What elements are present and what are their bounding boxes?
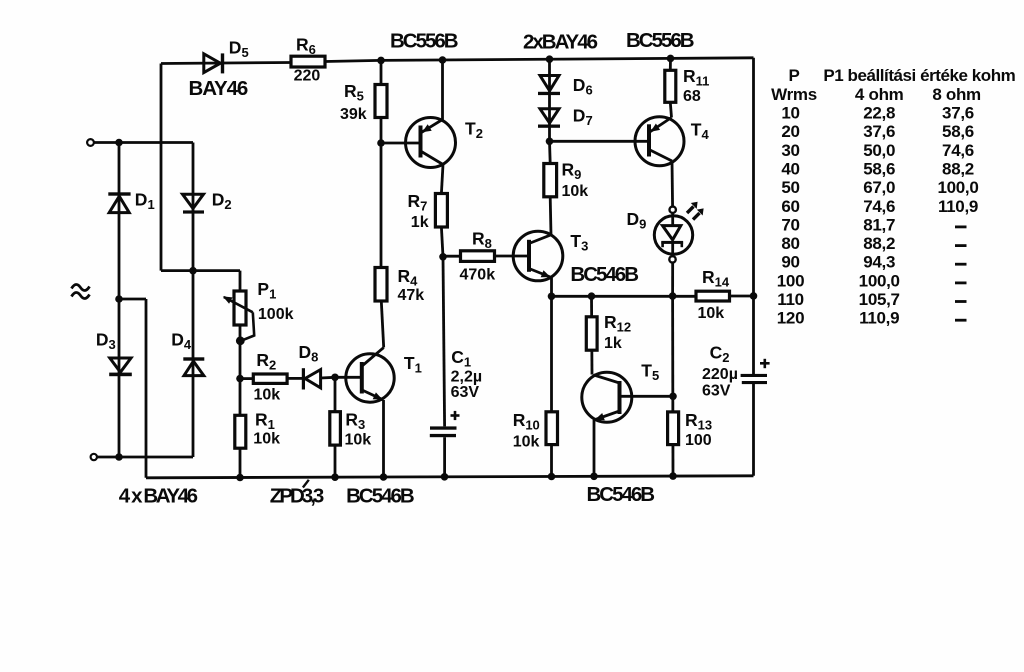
transistor T4 base bar: [647, 124, 651, 156]
svg-text:10k: 10k: [513, 434, 540, 451]
svg-text:2,2µ: 2,2µ: [451, 369, 482, 386]
wire D1/D3 column: [118, 143, 121, 458]
table dash row 110: [955, 300, 967, 303]
wire T2 base: [381, 142, 421, 145]
wire D2/D4 column: [192, 143, 195, 458]
plus C1: [451, 411, 460, 420]
wire D8 to T1 base junction: [321, 376, 336, 380]
junction top rail D6: [546, 55, 554, 63]
wire top rail: [381, 58, 754, 61]
resistor R3 10k: [330, 412, 341, 445]
wire left rail x=161: [160, 64, 163, 271]
wire R14 right: [730, 295, 754, 298]
diode D8 triangle: [305, 370, 321, 388]
transistor T1 emitter arrow: [373, 392, 383, 399]
svg-text:20: 20: [781, 122, 799, 141]
svg-text:BC546B: BC546B: [346, 485, 414, 508]
junction top rail T2 emitter: [439, 56, 447, 64]
junction D2 / D4 node: [189, 267, 197, 275]
transistor T2 circle: [406, 118, 456, 168]
svg-text:BC546B: BC546B: [570, 263, 638, 286]
LED D9 light arrow 2: [693, 213, 700, 220]
svg-text:2xBAY46: 2xBAY46: [523, 30, 598, 53]
svg-text:90: 90: [781, 253, 799, 272]
svg-text:120: 120: [777, 309, 804, 328]
svg-text:39k: 39k: [340, 106, 367, 123]
wire T4 collector to D9: [671, 161, 675, 216]
plus C2: [760, 359, 770, 368]
transistor T4 emitter: [649, 118, 672, 133]
svg-text:P1 beállítási értéke kohm: P1 beállítási értéke kohm: [823, 66, 1015, 85]
wire right rail lower: [752, 384, 755, 476]
junction T3 emitter / R10: [548, 293, 556, 301]
svg-text:37,6: 37,6: [942, 104, 974, 123]
svg-text:110,9: 110,9: [938, 197, 978, 216]
LED D9 bottom ring: [669, 256, 675, 262]
wire T4 base: [550, 140, 650, 143]
svg-text:100,0: 100,0: [937, 178, 978, 197]
ZPD3,3 pointer tick: [303, 480, 309, 488]
transistor T1 base bar: [360, 362, 364, 394]
diode D4 bar: [183, 357, 204, 360]
junction top rail R6 / R5: [377, 57, 385, 65]
svg-text:1k: 1k: [411, 214, 429, 231]
wire C1 column lower: [443, 437, 446, 477]
terminal top: [87, 139, 94, 146]
transistor T2 emitter arrow: [422, 124, 432, 132]
svg-text:58,6: 58,6: [863, 160, 895, 179]
junction P1 / R2 / R1: [236, 375, 244, 383]
resistor R2 10k: [253, 374, 287, 383]
potentiometer P1 wiper arrowhead: [223, 296, 233, 303]
svg-text:Wrms: Wrms: [771, 85, 817, 104]
svg-text:10k: 10k: [698, 305, 725, 322]
wire T1 base: [335, 376, 362, 379]
transistor T2 emitter: [421, 120, 443, 134]
diode D5 triangle: [204, 54, 221, 73]
svg-text:100,0: 100,0: [859, 271, 900, 290]
transistor T5 emitter: [594, 411, 620, 420]
diode D7 triangle: [540, 109, 559, 123]
junction D8 / R3 / T1 base: [331, 374, 339, 382]
AC source symbol: [72, 284, 90, 298]
svg-text:88,2: 88,2: [942, 160, 974, 179]
svg-text:47k: 47k: [398, 287, 425, 304]
diode D3 bar: [109, 373, 132, 377]
wire R8 right to T3 base: [495, 255, 530, 258]
junction bottom T5 emitter: [590, 473, 598, 481]
svg-text:50,0: 50,0: [863, 141, 895, 160]
transistor T2 collector: [421, 151, 444, 165]
junction bottom R13: [669, 472, 677, 480]
junction bottom R10: [548, 473, 556, 481]
svg-text:50: 50: [781, 178, 799, 197]
wire D5 branch: [161, 63, 291, 64]
transistor T1 collector: [362, 348, 384, 367]
LED D9 bar: [661, 241, 683, 244]
svg-text:30: 30: [781, 141, 799, 160]
junction R7 / R8 / C1: [439, 253, 447, 261]
svg-text:4 x BAY46: 4 x BAY46: [119, 485, 198, 508]
transistor T4 circle: [635, 117, 684, 166]
wire left drop x=146: [145, 299, 148, 478]
LED D9 bar end ticks: [663, 242, 682, 248]
diode D4 triangle: [184, 361, 204, 375]
junction top terminal / D1: [115, 139, 123, 147]
svg-text:110,9: 110,9: [859, 309, 899, 328]
wire T1 emitter vertical: [382, 400, 385, 477]
wire R11 top: [669, 58, 672, 70]
capacitor C2 plates: [741, 374, 767, 384]
transistor T3 collector: [529, 235, 551, 244]
table dash row 100: [955, 282, 967, 285]
junction bottom T1 emitter: [380, 473, 388, 481]
transistor T3 circle: [513, 231, 563, 281]
diode D6 bar: [538, 92, 560, 95]
svg-text:BAY46: BAY46: [189, 77, 248, 100]
svg-text:70: 70: [781, 215, 799, 234]
table dash row 120: [955, 319, 967, 322]
svg-text:470k: 470k: [460, 267, 496, 284]
svg-text:37,6: 37,6: [863, 122, 895, 141]
diode D1 bar: [108, 192, 130, 195]
transistor T1 circle: [346, 354, 394, 402]
diode D2 triangle: [183, 194, 204, 208]
potentiometer P1 wiper: [224, 297, 254, 341]
resistor R6 220: [291, 56, 325, 67]
wire D9 inside top: [671, 216, 674, 225]
LED D9 triangle: [663, 226, 681, 240]
wire T5 emitter vertical: [593, 420, 596, 476]
diode D1 triangle: [109, 196, 129, 212]
resistor R8 470k: [461, 251, 495, 262]
wire R5/R4 column: [380, 60, 383, 301]
diode D6 triangle: [540, 76, 559, 91]
svg-text:40: 40: [781, 160, 799, 179]
potentiometer P1 body: [234, 291, 246, 325]
svg-text:74,6: 74,6: [863, 197, 895, 216]
wire y=296 rail left of R14: [552, 295, 697, 298]
transistor T4 collector: [649, 150, 672, 162]
wire T5 base: [620, 395, 674, 398]
svg-text:88,2: 88,2: [863, 234, 895, 253]
svg-text:100: 100: [685, 432, 712, 449]
wire R10 column: [550, 296, 553, 476]
svg-text:67,0: 67,0: [863, 178, 895, 197]
svg-text:68: 68: [683, 88, 701, 105]
wire T2 emitter vertical: [441, 60, 444, 120]
wire horizontal y=270 to P1: [161, 269, 240, 272]
transistor T5 emitter arrow: [595, 413, 605, 420]
transistor T3 emitter: [529, 269, 552, 278]
wire P1 column: [239, 271, 242, 478]
resistor R7 1k: [435, 194, 447, 228]
wire D6/D7 column: [548, 59, 551, 141]
resistor R11 68: [665, 70, 676, 102]
svg-text:60: 60: [781, 197, 799, 216]
resistor R10 10k: [546, 412, 558, 445]
svg-text:22,8: 22,8: [863, 104, 895, 123]
junction D9 / R13 node: [669, 292, 677, 300]
svg-text:10: 10: [781, 104, 799, 123]
svg-text:63V: 63V: [702, 383, 731, 400]
svg-text:10k: 10k: [254, 386, 281, 403]
svg-text:4 ohm: 4 ohm: [855, 85, 904, 104]
svg-text:8 ohm: 8 ohm: [932, 85, 981, 104]
junction bottom terminal / D3: [115, 453, 123, 461]
diode D7 bar: [538, 125, 560, 128]
junction D1 / D3 node: [115, 295, 123, 303]
svg-text:63V: 63V: [451, 384, 480, 401]
LED D9 circle: [654, 216, 692, 254]
svg-text:81,7: 81,7: [863, 215, 895, 234]
transistor T4 emitter arrow: [651, 124, 661, 132]
svg-text:105,7: 105,7: [859, 290, 900, 309]
capacitor C1 plates: [430, 426, 457, 437]
table dash row 70: [955, 226, 967, 229]
transistor T5 circle: [582, 372, 632, 422]
junction bottom R3: [331, 473, 339, 481]
transistor T5 base bar: [618, 381, 622, 414]
resistor R12 1k: [586, 317, 597, 350]
wire D9 inside bottom to node: [671, 242, 674, 297]
svg-text:P: P: [788, 66, 799, 85]
svg-text:BC556B: BC556B: [390, 29, 458, 52]
resistor R5 39k: [375, 85, 387, 118]
LED D9 light arrow 1: [687, 202, 704, 220]
svg-text:BC556B: BC556B: [626, 29, 694, 52]
wire T4 emitter vertical: [670, 102, 671, 117]
svg-text:10k: 10k: [345, 431, 372, 448]
svg-text:220: 220: [294, 68, 321, 85]
transistor T3 base bar: [527, 240, 531, 272]
svg-text:1k: 1k: [604, 335, 622, 352]
svg-text:10k: 10k: [253, 431, 280, 448]
wire bottom rail: [146, 476, 754, 478]
junction bottom C1: [441, 473, 449, 481]
junction R14 / right rail: [750, 292, 758, 300]
LED D9 top ring: [670, 207, 676, 213]
wire T2 collector to R7: [441, 165, 443, 194]
svg-text:10k: 10k: [562, 183, 589, 200]
svg-text:58,6: 58,6: [942, 122, 974, 141]
junction top rail R11: [667, 55, 675, 63]
wire R7 to R8 junction: [441, 227, 443, 257]
junction T5 base / R13: [669, 393, 677, 401]
svg-text:74,6: 74,6: [942, 141, 974, 160]
wire R12 column: [590, 296, 593, 374]
wire T3 collector to R9: [549, 197, 553, 235]
transistor T5 collector: [594, 375, 620, 383]
table dash row 90: [955, 263, 967, 266]
wire T3 emitter vertical: [550, 278, 553, 297]
junction bottom R1: [236, 474, 244, 482]
resistor R14 10k: [696, 291, 730, 301]
junction P1 wiper: [236, 336, 245, 345]
wire R3 column: [334, 377, 337, 477]
transistor T3 emitter arrow: [541, 270, 551, 277]
junction R5 / T2 base: [377, 139, 385, 147]
table dash row 80: [955, 244, 967, 247]
wire top-left terminal to D2 column: [94, 141, 193, 144]
diode D3 triangle: [110, 358, 131, 372]
diode D8 bar: [302, 368, 305, 389]
wire R2 left: [240, 377, 253, 380]
wire link y=299: [119, 298, 146, 301]
junction D7 / R9 / T4 base: [546, 138, 554, 146]
wire R8 left: [443, 255, 461, 258]
svg-text:100k: 100k: [258, 306, 294, 323]
svg-text:ZPD3,3: ZPD3,3: [270, 485, 324, 508]
diode D5 bar: [221, 53, 224, 73]
junction R12 top: [588, 292, 596, 300]
wire R2 to D8: [287, 377, 302, 380]
terminal bottom: [91, 454, 97, 460]
wire R6 to top junction: [325, 60, 381, 61]
resistor R4 47k: [375, 268, 387, 302]
wire R9 to D7 junction: [548, 141, 552, 163]
transistor T2 base bar: [419, 126, 423, 158]
svg-text:80: 80: [781, 234, 799, 253]
svg-text:100: 100: [777, 271, 804, 290]
wire C1 column upper: [443, 257, 445, 427]
wire right rail upper: [752, 58, 755, 375]
svg-text:220µ: 220µ: [702, 366, 738, 383]
svg-text:BC546B: BC546B: [587, 483, 655, 506]
wire bottom terminal to D4 column: [97, 456, 193, 459]
wire R13/D9 column: [671, 296, 674, 476]
diode D2 bar: [183, 210, 204, 213]
resistor R1 10k: [235, 415, 246, 448]
transistor T1 emitter: [362, 390, 384, 400]
resistor R13 100: [668, 412, 679, 445]
svg-text:94,3: 94,3: [863, 253, 895, 272]
svg-text:110: 110: [777, 290, 804, 309]
resistor R9 10k: [544, 164, 557, 197]
wire T1 collector link to R4: [381, 301, 383, 348]
